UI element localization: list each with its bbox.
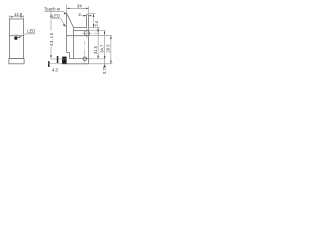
- right dim: 29.5: [89, 36, 113, 64]
- bevel top front: [67, 13, 74, 27]
- svg-text:14.8: 14.8: [14, 12, 23, 17]
- svg-text:29.5: 29.5: [106, 44, 111, 53]
- svg-text:LED: LED: [52, 14, 60, 19]
- svg-text:Teach-in: Teach-in: [44, 7, 60, 12]
- svg-text:43.15: 43.15: [49, 32, 54, 46]
- svg-text:34.7: 34.7: [99, 44, 104, 53]
- svg-text:31.5: 31.5: [93, 45, 98, 54]
- top depth dimension 24: [67, 5, 89, 15]
- front view divider line: [10, 35, 24, 37]
- internal horizontal seam 2: [67, 35, 89, 37]
- svg-text:LED: LED: [27, 29, 35, 34]
- centerlines: [78, 28, 100, 63]
- right dim: 34.7: [89, 31, 106, 64]
- lower mounting hole: [83, 57, 87, 61]
- rear post: [87, 15, 89, 28]
- front view body rectangle: [10, 19, 24, 59]
- right dim: 31.5: [89, 28, 106, 59]
- front face: [66, 13, 68, 52]
- internal vertical: [73, 28, 75, 59]
- back face: [88, 15, 90, 64]
- svg-text:34: 34: [77, 4, 82, 9]
- top face: [74, 27, 87, 29]
- front view foot band: [9, 59, 24, 64]
- front view lens bump: [14, 34, 18, 36]
- right dim: post height 14: [89, 14, 100, 28]
- left height dimension 43.1: [50, 12, 66, 59]
- svg-text:3.75: 3.75: [102, 65, 107, 74]
- front view LED black square: [14, 37, 17, 40]
- svg-text:2.4: 2.4: [94, 20, 99, 26]
- body bottom: [70, 58, 89, 60]
- upper mounting hole: [84, 31, 89, 36]
- foot front + bottom: [62, 59, 88, 64]
- internal horizontal seam 1: [74, 30, 89, 32]
- step at front bottom: [67, 53, 70, 59]
- svg-text:4.3: 4.3: [52, 67, 58, 72]
- bottom-left foot dim marks + 4.3: [48, 61, 50, 67]
- width dimension 14.8: [10, 15, 24, 18]
- black clamp block at foot front: [62, 57, 66, 64]
